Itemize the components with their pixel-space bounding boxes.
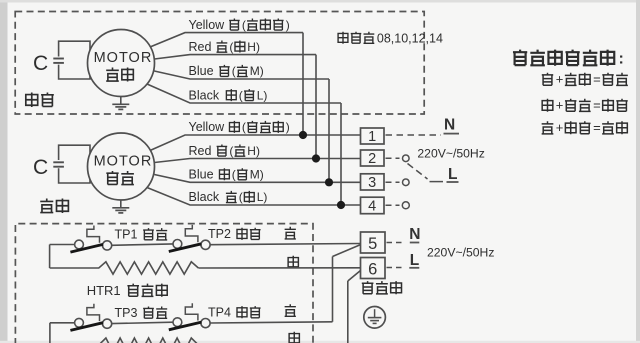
terminal block 4 — [361, 197, 385, 214]
svg-text:Black: Black — [189, 190, 220, 204]
svg-text:TP4: TP4 — [208, 306, 231, 320]
thermal protector TP4 contacts — [173, 318, 182, 327]
svg-text:Yellow: Yellow — [189, 120, 226, 134]
svg-text:2: 2 — [368, 151, 376, 167]
svg-text:=: = — [593, 72, 601, 87]
svg-text:N: N — [409, 226, 420, 243]
thermal protector TP1 contacts — [75, 240, 84, 249]
svg-text:N: N — [444, 117, 455, 134]
wire left riser row3 — [49, 323, 51, 343]
wire TP2 to terminal 5 (black) — [210, 244, 360, 245]
thermal protector TP2 bimetal element — [185, 225, 198, 242]
svg-text:H): H) — [247, 40, 260, 54]
capacitor C2 plates — [53, 161, 64, 163]
dashed wire terminal 6 to L — [387, 267, 405, 269]
svg-text:L: L — [410, 252, 419, 269]
junction dot black — [337, 201, 345, 209]
svg-text:(: ( — [232, 168, 236, 182]
svg-text:08,10,12,14: 08,10,12,14 — [377, 32, 443, 46]
wire TP1-TP2 — [112, 244, 173, 245]
ground symbol under M2 — [120, 200, 122, 208]
svg-text:Black: Black — [189, 88, 220, 102]
svg-text:Yellow: Yellow — [189, 18, 226, 32]
svg-text:(: ( — [229, 40, 233, 54]
svg-text:220V~/50Hz: 220V~/50Hz — [417, 147, 484, 161]
svg-text:): ) — [286, 18, 290, 32]
wire Blue M1 vertical drop — [328, 79, 330, 182]
switch arm dashed from contact 2 to L — [408, 164, 428, 180]
wire HTR1 to terminal 6 (brown) — [198, 267, 360, 269]
terminal block 3 — [361, 174, 385, 190]
svg-text:Blue: Blue — [189, 64, 214, 78]
svg-text:(: ( — [229, 144, 233, 158]
svg-text:MOTOR: MOTOR — [94, 154, 153, 170]
svg-text:5: 5 — [368, 235, 377, 253]
thermal protector TP2 contacts — [173, 240, 182, 249]
svg-text:+: + — [556, 72, 564, 87]
line 黄+蓝线=中速 — [542, 99, 553, 112]
dashed wire terminal 1 to N — [386, 134, 442, 136]
label 电容 (capacitor) 1 — [26, 93, 38, 108]
thermal protector TP4 lever — [169, 322, 202, 330]
svg-text:(: ( — [242, 18, 246, 32]
svg-text:1: 1 — [368, 129, 376, 145]
line 黄+黑线=低速 — [542, 121, 554, 134]
terminal block 2 — [361, 150, 385, 166]
svg-text:220V~/50Hz: 220V~/50Hz — [427, 246, 494, 260]
svg-text:4: 4 — [368, 199, 376, 215]
wire left riser row1 — [49, 245, 51, 269]
svg-text:Red: Red — [189, 40, 212, 54]
motor M2 label 电机 — [106, 171, 118, 184]
switch contact at terminal 4 — [386, 204, 400, 206]
thermal protector TP3 contacts — [75, 318, 84, 327]
label 黑 row3 — [285, 304, 296, 316]
wire Yellow M2 to terminal 1 — [150, 135, 361, 151]
capacitor C1 loop wiring — [59, 41, 90, 79]
heater HTR2 resistor (clipped) — [99, 338, 199, 343]
wire riser row4 to terminal 6 — [347, 281, 349, 343]
motor M2 circle — [88, 133, 155, 200]
junction dot yellow — [299, 131, 307, 139]
line 黄+红线=高速 — [542, 73, 553, 85]
svg-text:H): H) — [247, 144, 260, 158]
capacitor C1 plates — [53, 58, 64, 60]
motor M1 circle — [88, 30, 155, 97]
motor M1 label 电机 — [106, 68, 119, 82]
wire Red M2 to terminal 2 — [154, 159, 360, 163]
svg-text:C: C — [33, 156, 48, 179]
label 棕 row2 — [288, 256, 298, 268]
svg-text:Red: Red — [189, 144, 212, 158]
label 电容 (capacitor) 2 — [40, 199, 53, 213]
svg-text:): ) — [286, 120, 290, 134]
wire Blue M2 to terminal 3 — [154, 175, 360, 183]
protective earth terminal circle — [364, 307, 386, 329]
svg-text:(: ( — [239, 88, 243, 102]
heading 电机转速控制: — [513, 50, 527, 66]
svg-text::: : — [619, 51, 624, 68]
terminal block 5 — [361, 232, 386, 253]
thermal protector TP1 lever — [70, 244, 103, 252]
label 接线柱 — [362, 281, 374, 294]
dashed enclosure heater section — [15, 224, 313, 343]
svg-text:=: = — [593, 120, 601, 135]
wire Yellow M1 vertical drop — [302, 33, 304, 135]
svg-text:TP2: TP2 — [208, 227, 231, 241]
label 黑 row1 — [285, 227, 296, 239]
svg-text:L: L — [448, 166, 457, 183]
dashed enclosure (models 08,10,12,14) around motor M1 — [15, 12, 424, 115]
svg-text:HTR1: HTR1 — [87, 283, 121, 298]
terminal block 6 — [361, 258, 386, 279]
wire Black M2 to terminal 4 — [147, 188, 361, 206]
junction dot blue — [325, 178, 333, 186]
wire diagonal into terminal 6 — [348, 271, 361, 282]
ground symbol under M1 — [120, 96, 122, 104]
thermal protector TP1 bimetal element — [87, 226, 100, 243]
terminal block 1 — [361, 128, 385, 144]
svg-text:6: 6 — [368, 260, 377, 278]
junction dot red — [312, 154, 320, 162]
svg-text:M): M) — [250, 168, 264, 182]
wire diagonal into terminal 5 — [333, 245, 361, 257]
label 仅机型08,10,12,14 — [338, 32, 348, 44]
wire TP3-TP4 — [112, 322, 173, 323]
svg-text:(: ( — [242, 120, 246, 134]
svg-text:L): L) — [257, 190, 268, 204]
label 棕 row4 — [289, 332, 299, 343]
svg-text:=: = — [593, 98, 601, 113]
wire row1 left segment — [50, 244, 75, 246]
svg-text:C: C — [33, 52, 48, 75]
switch contact at terminal 2 — [386, 157, 400, 159]
wire Black M1 — [147, 84, 341, 103]
svg-text:+: + — [556, 98, 564, 113]
thermal protector TP3 bimetal element — [87, 304, 100, 321]
svg-text:(: ( — [239, 190, 243, 204]
thermal protector TP4 bimetal element — [185, 303, 198, 320]
heater HTR1 resistor — [50, 262, 199, 274]
svg-text:TP3: TP3 — [115, 306, 138, 320]
wire Yellow M1 — [150, 33, 303, 47]
svg-text:Blue: Blue — [189, 168, 214, 182]
wire row3 left segment — [50, 322, 75, 324]
wire Blue M1 — [154, 71, 329, 79]
wire Black M1 vertical drop — [340, 103, 342, 205]
svg-text:(: ( — [232, 64, 236, 78]
svg-text:MOTOR: MOTOR — [94, 50, 153, 66]
thermal protector TP3 lever — [70, 323, 103, 331]
svg-text:TP1: TP1 — [115, 228, 138, 242]
switch contact at terminal 3 — [386, 181, 400, 183]
svg-text:M): M) — [250, 64, 264, 78]
svg-text:+: + — [556, 120, 564, 135]
wire riser row3 up to terminal 5 — [332, 257, 334, 322]
dashed wire terminal 5 to N — [387, 242, 405, 244]
svg-text:3: 3 — [368, 175, 376, 191]
wire Red M1 vertical drop — [315, 55, 317, 159]
capacitor C2 loop wiring — [59, 145, 90, 183]
wire Red M1 — [154, 55, 316, 59]
svg-text:L): L) — [257, 88, 268, 102]
thermal protector TP2 lever — [169, 244, 202, 252]
wire TP4 right to riser — [210, 322, 332, 323]
